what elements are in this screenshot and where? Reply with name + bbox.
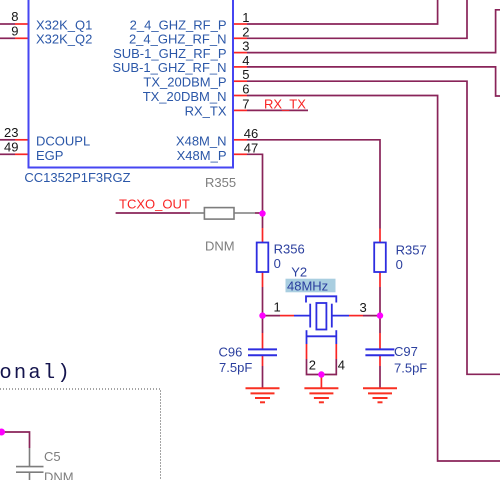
svg-text:RX_TX: RX_TX bbox=[185, 104, 227, 119]
svg-text:SUB-1_GHZ_RF_P: SUB-1_GHZ_RF_P bbox=[113, 46, 226, 61]
svg-text:C97: C97 bbox=[394, 344, 418, 359]
svg-text:9: 9 bbox=[11, 23, 18, 38]
svg-text:8: 8 bbox=[11, 9, 18, 24]
svg-text:2: 2 bbox=[309, 358, 316, 373]
svg-text:TX_20DBM_N: TX_20DBM_N bbox=[143, 89, 227, 104]
svg-text:6: 6 bbox=[242, 82, 249, 97]
svg-text:3: 3 bbox=[360, 300, 367, 315]
svg-text:DNM: DNM bbox=[44, 470, 74, 480]
svg-text:TCXO_OUT: TCXO_OUT bbox=[119, 197, 190, 212]
svg-text:48MHz: 48MHz bbox=[287, 279, 328, 294]
svg-text:R357: R357 bbox=[396, 242, 427, 257]
svg-text:5: 5 bbox=[242, 67, 249, 82]
svg-text:SUB-1_GHZ_RF_N: SUB-1_GHZ_RF_N bbox=[112, 60, 226, 75]
svg-text:7.5pF: 7.5pF bbox=[219, 360, 252, 375]
svg-text:2: 2 bbox=[242, 24, 249, 39]
svg-text:2_4_GHZ_RF_N: 2_4_GHZ_RF_N bbox=[129, 32, 227, 47]
svg-text:23: 23 bbox=[4, 125, 18, 140]
svg-text:X32K_Q2: X32K_Q2 bbox=[36, 32, 92, 47]
svg-text:46: 46 bbox=[244, 126, 258, 141]
svg-text:X48M_N: X48M_N bbox=[176, 133, 227, 148]
svg-text:C5: C5 bbox=[44, 449, 61, 464]
svg-text:DCOUPL: DCOUPL bbox=[36, 133, 90, 148]
svg-text:1: 1 bbox=[274, 300, 281, 315]
svg-text:X48M_P: X48M_P bbox=[177, 148, 227, 163]
svg-text:7: 7 bbox=[242, 96, 249, 111]
svg-text:(optional): (optional) bbox=[0, 362, 72, 385]
svg-text:TX_20DBM_P: TX_20DBM_P bbox=[143, 75, 226, 90]
svg-text:3: 3 bbox=[242, 39, 249, 54]
svg-text:RX_TX: RX_TX bbox=[264, 97, 306, 112]
svg-text:7.5pF: 7.5pF bbox=[394, 360, 427, 375]
svg-text:49: 49 bbox=[4, 139, 18, 154]
svg-text:1: 1 bbox=[242, 10, 249, 25]
svg-text:EGP: EGP bbox=[36, 148, 63, 163]
svg-text:DNM: DNM bbox=[205, 239, 235, 254]
svg-text:2_4_GHZ_RF_P: 2_4_GHZ_RF_P bbox=[130, 17, 227, 32]
svg-text:47: 47 bbox=[244, 140, 258, 155]
svg-text:X32K_Q1: X32K_Q1 bbox=[36, 17, 92, 32]
svg-text:Y2: Y2 bbox=[291, 264, 307, 279]
svg-text:R356: R356 bbox=[274, 241, 305, 256]
svg-text:C96: C96 bbox=[219, 345, 243, 360]
svg-text:0: 0 bbox=[274, 256, 281, 271]
svg-text:R355: R355 bbox=[205, 175, 236, 190]
svg-text:CC1352P1F3RGZ: CC1352P1F3RGZ bbox=[24, 170, 130, 185]
svg-text:4: 4 bbox=[242, 53, 249, 68]
svg-text:4: 4 bbox=[338, 358, 345, 373]
svg-text:0: 0 bbox=[396, 257, 403, 272]
